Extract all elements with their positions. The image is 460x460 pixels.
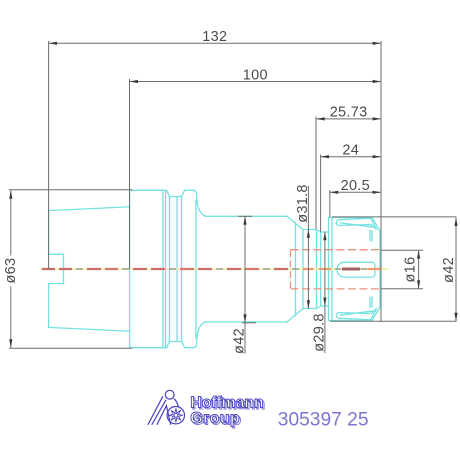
bore end face [63,254,65,283]
neck 29.8 top [321,231,329,233]
nut top chamfer [372,218,380,232]
nut top slot [336,218,376,229]
extension line 25.73 [315,117,317,230]
arrows 100 [130,80,138,83]
dim line 24 [321,156,381,158]
icon gear hub [174,413,178,417]
body top edge [205,215,287,217]
dia63 dim line upper [10,190,12,255]
arrows dia42 right [454,218,457,226]
dia63 ext bottom [9,347,132,349]
arrows dia42 left [243,216,246,224]
svg-text:ø29.8: ø29.8 [311,313,327,352]
svg-text:100: 100 [243,67,268,83]
dia42 right dim line [455,218,457,322]
bore top edge [49,253,64,255]
arrows dia31.8 [307,229,310,237]
nut middle slot [337,262,375,277]
groove face line A [169,197,171,342]
flange right fillet bottom [194,322,207,348]
Hoffmann Group logo icon [148,390,185,424]
dia63 ext top [9,189,132,191]
groove face line C [176,197,178,342]
arrows dia29.8 [323,232,326,240]
dia42 left tick top [238,215,252,217]
neck step slope top [317,230,321,233]
arrows 24 [321,155,329,158]
neck 29.8 face line [320,232,322,306]
centerline base (yellow) [40,268,388,270]
left face lower [48,284,50,328]
dia16 dim line [418,250,420,289]
extension line 20.5 [329,190,331,217]
dia16 leader bottom [381,288,423,290]
dim line 132 [49,42,381,44]
centerline red dashes [42,268,381,270]
flange gauge face [129,190,131,347]
nut bottom chamfer [372,307,380,321]
svg-text:25.73: 25.73 [330,105,368,121]
svg-text:20.5: 20.5 [341,178,370,194]
dia42 right ext top [332,216,457,218]
dimension texts [3,29,457,354]
groove face line B [181,197,183,342]
taper top edge [49,207,130,211]
extension line 24 [320,155,322,232]
centerline short dark dashes [76,268,367,270]
svg-text:Hoffmann: Hoffmann [190,394,264,411]
extension line left 132 [48,41,50,269]
icon back line [174,398,178,406]
nut bottom slot inner line [340,311,374,315]
dia42 left dim line [244,216,246,353]
neck step face [316,230,318,309]
arrowheads [9,42,457,348]
svg-text:ø42: ø42 [441,257,457,283]
nut top slot inner line [340,223,374,227]
nut cone edge bottom [370,297,372,308]
flange step line B [165,190,167,347]
icon body left leg inner [152,400,166,425]
nut left face [328,218,330,321]
nut inner face line [331,218,333,321]
svg-text:ø31.8: ø31.8 [295,184,311,223]
nut right face [379,231,381,307]
nut bottom slot [336,308,376,319]
dimension graphics (gray) [9,41,457,354]
flange corner face line [195,200,197,338]
dia31.8 dim line [307,186,309,309]
arrows dia16 [417,250,420,258]
nut bottom edge [329,320,373,322]
groove bottom profile [167,342,185,348]
arrows dia63 [9,190,12,198]
flange OD top [130,189,194,191]
arrows 132 [49,42,57,45]
icon gear star [169,408,183,422]
icon head circle [165,390,174,399]
dim line 20.5 [330,191,381,193]
Hoffmann Group logo text [190,394,265,428]
hidden bore line top (red dashed) [291,249,380,251]
dia42 right ext bottom [330,320,457,322]
svg-text:132: 132 [202,29,227,45]
svg-text:Group: Group [190,410,240,427]
flange OD bottom [130,347,194,349]
svg-text:ø16: ø16 [403,257,419,283]
svg-text:24: 24 [342,143,359,159]
neck step slope bottom [317,306,321,309]
body bottom edge [205,321,287,323]
groove top profile [167,190,185,196]
arrows 20.5 [330,191,338,194]
nut top edge [329,217,373,219]
icon body left leg outer [148,396,163,425]
dia63 dim line lower [10,287,12,348]
nut cone edge top [370,231,372,242]
centerline thick dash in slot [342,268,360,271]
dim line 100 [130,81,382,83]
neck 31.8 bottom [303,308,317,310]
extension line 100 [129,79,131,269]
svg-text:305397 25: 305397 25 [278,409,369,430]
dia42 left tick bottom [242,322,256,324]
dia16 leader top [381,249,423,251]
extension line right common [380,41,382,322]
shoulder face line A [295,222,297,315]
part outline (cyan) [49,190,380,347]
icon small triangle [157,406,171,425]
shoulder bottom slope [287,309,303,322]
bore bottom edge [49,283,64,285]
left face upper [48,211,50,255]
dim line 25.73 [316,118,381,120]
neck 31.8 top [303,229,317,231]
svg-text:ø63: ø63 [3,258,19,284]
shoulder top slope [287,216,303,229]
flange step line A [162,190,164,347]
hidden bore line bottom (red dashed) [291,288,380,290]
icon gear circle [167,407,184,424]
hidden bore end face (red dashed) [290,250,292,288]
arrows 25.73 [316,117,324,120]
dia29.8 dim line [324,232,326,353]
shoulder face line B [302,230,304,309]
svg-text:ø42: ø42 [232,328,248,354]
taper bottom edge [49,327,130,331]
neck 29.8 bottom [321,305,329,307]
flange right fillet top [194,190,207,216]
